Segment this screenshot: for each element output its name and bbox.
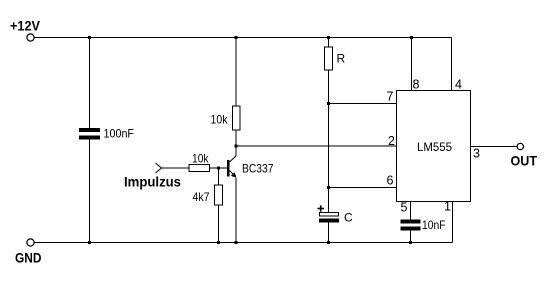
svg-text:BC337: BC337 [242, 162, 274, 176]
svg-text:4: 4 [455, 78, 462, 92]
wire R4 bottom lead [218, 205, 220, 243]
wire pin 8 [411, 38, 413, 91]
svg-text:2: 2 [388, 134, 395, 148]
junction ground rail / C branch [327, 241, 330, 244]
svg-text:C: C [344, 211, 353, 225]
wire C2 bottom lead [410, 231, 412, 243]
op-amp U1 LM555 body [397, 91, 471, 202]
wire R top lead [328, 38, 330, 48]
junction pin6 node [327, 186, 330, 189]
ground terminal [27, 239, 34, 246]
wire pin 3 to OUT [471, 146, 518, 148]
svg-text:10k: 10k [192, 152, 209, 166]
junction top rail / C1 branch [88, 36, 91, 39]
junction pin7 node [327, 102, 330, 105]
svg-text:10nF: 10nF [422, 218, 446, 232]
svg-text:4k7: 4k7 [193, 190, 210, 204]
node input arrow [156, 163, 162, 173]
wire base node to R4 [218, 168, 220, 185]
wire pin6 net [329, 187, 397, 189]
wire pin7 node to pin6 node [328, 104, 330, 188]
svg-text:10k: 10k [211, 113, 229, 127]
wire R2 bottom lead [235, 130, 237, 146]
svg-text:GND: GND [15, 250, 42, 266]
resistor R [325, 47, 333, 70]
junction collector node [235, 145, 238, 148]
wire C1 branch lower [89, 140, 91, 243]
junction base node [217, 167, 220, 170]
svg-text:7: 7 [387, 90, 394, 104]
svg-text:100nF: 100nF [104, 127, 135, 141]
wire R2 top lead [235, 38, 237, 107]
junction ground rail / emitter branch [235, 241, 238, 244]
wire R3 to base node [210, 167, 228, 169]
wire pin6 node to C [328, 188, 330, 213]
junction ground rail / R4 branch [217, 241, 220, 244]
label + (C polarity) [318, 205, 325, 211]
svg-text:+12V: +12V [10, 18, 41, 34]
svg-text:OUT: OUT [511, 153, 538, 169]
svg-text:3: 3 [473, 147, 480, 161]
wire pin 5 [410, 202, 412, 220]
wire pin 1 [452, 202, 454, 243]
wire R bottom lead to pin7 node [328, 70, 330, 104]
capacitor C2 10nF [401, 220, 421, 231]
svg-text:1: 1 [444, 200, 451, 214]
junction ground rail / C2 branch [409, 241, 412, 244]
wire pin7 net [329, 103, 397, 105]
wire input to R3 [162, 167, 190, 169]
node +12V terminal [27, 34, 34, 41]
wire C bottom lead [328, 223, 330, 243]
junction top rail / pin8 branch [410, 36, 413, 39]
wire pin 4 [451, 38, 453, 91]
junction ground rail / C1 branch [88, 241, 91, 244]
junction top rail / R branch [327, 36, 330, 39]
resistor R4 4k7 [215, 185, 223, 205]
capacitor C (polarized) [319, 213, 339, 223]
transistor Q1 BC337 [227, 156, 237, 178]
resistor R3 10k (horizontal) [189, 165, 210, 172]
svg-text:Impulzus: Impulzus [124, 174, 181, 190]
junction top rail / R2 branch [235, 36, 238, 39]
wire top rail [35, 37, 452, 39]
wire emitter to ground rail [235, 178, 237, 243]
capacitor 100nF [79, 128, 100, 140]
svg-text:R: R [337, 52, 346, 66]
node OUT terminal [517, 143, 523, 149]
wire collector to pin2 net [235, 146, 237, 156]
wire pin2 net [236, 145, 396, 147]
wire ground rail [35, 242, 453, 244]
svg-text:8: 8 [413, 78, 420, 92]
svg-text:LM555: LM555 [417, 140, 452, 154]
wire C1 branch upper [89, 38, 91, 129]
svg-text:6: 6 [387, 174, 394, 188]
resistor R2 10k (vertical) [233, 106, 241, 130]
svg-text:5: 5 [401, 201, 408, 215]
